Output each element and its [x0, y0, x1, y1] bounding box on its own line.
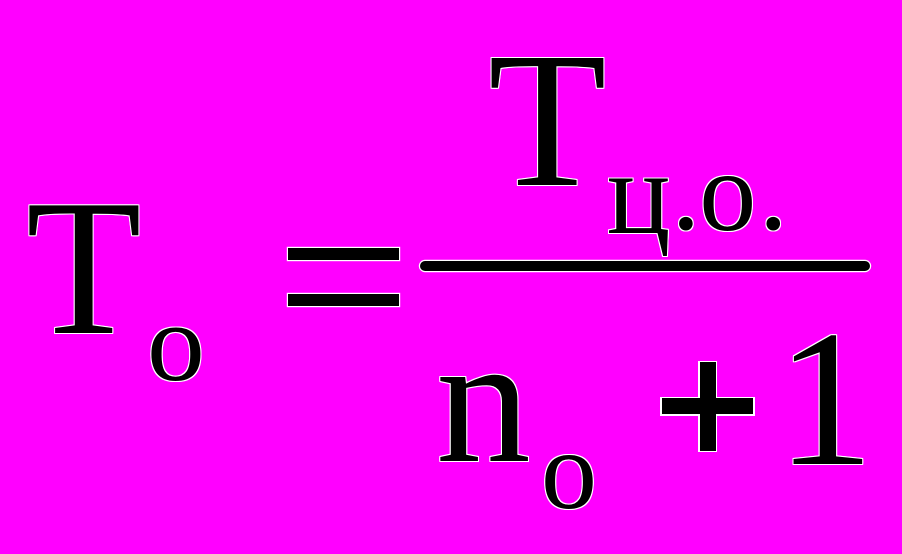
numerator subscript dot1: [672, 133, 701, 248]
equals bottom bar: [288, 294, 399, 306]
plus sign halo: [660, 397, 754, 416]
main T: [26, 171, 145, 366]
numerator subscript ts: [607, 134, 671, 253]
numeral 1: [776, 302, 874, 497]
plus sign: [662, 398, 754, 414]
equals top bar: [288, 248, 399, 260]
fraction bar: [420, 261, 871, 271]
numerator T: [488, 23, 607, 217]
numerator subscript o: [699, 135, 756, 249]
denominator n: [436, 308, 528, 491]
numerator subscript dot2: [759, 133, 788, 248]
main T subscript o: [147, 288, 203, 399]
denominator subscript o: [541, 415, 597, 527]
